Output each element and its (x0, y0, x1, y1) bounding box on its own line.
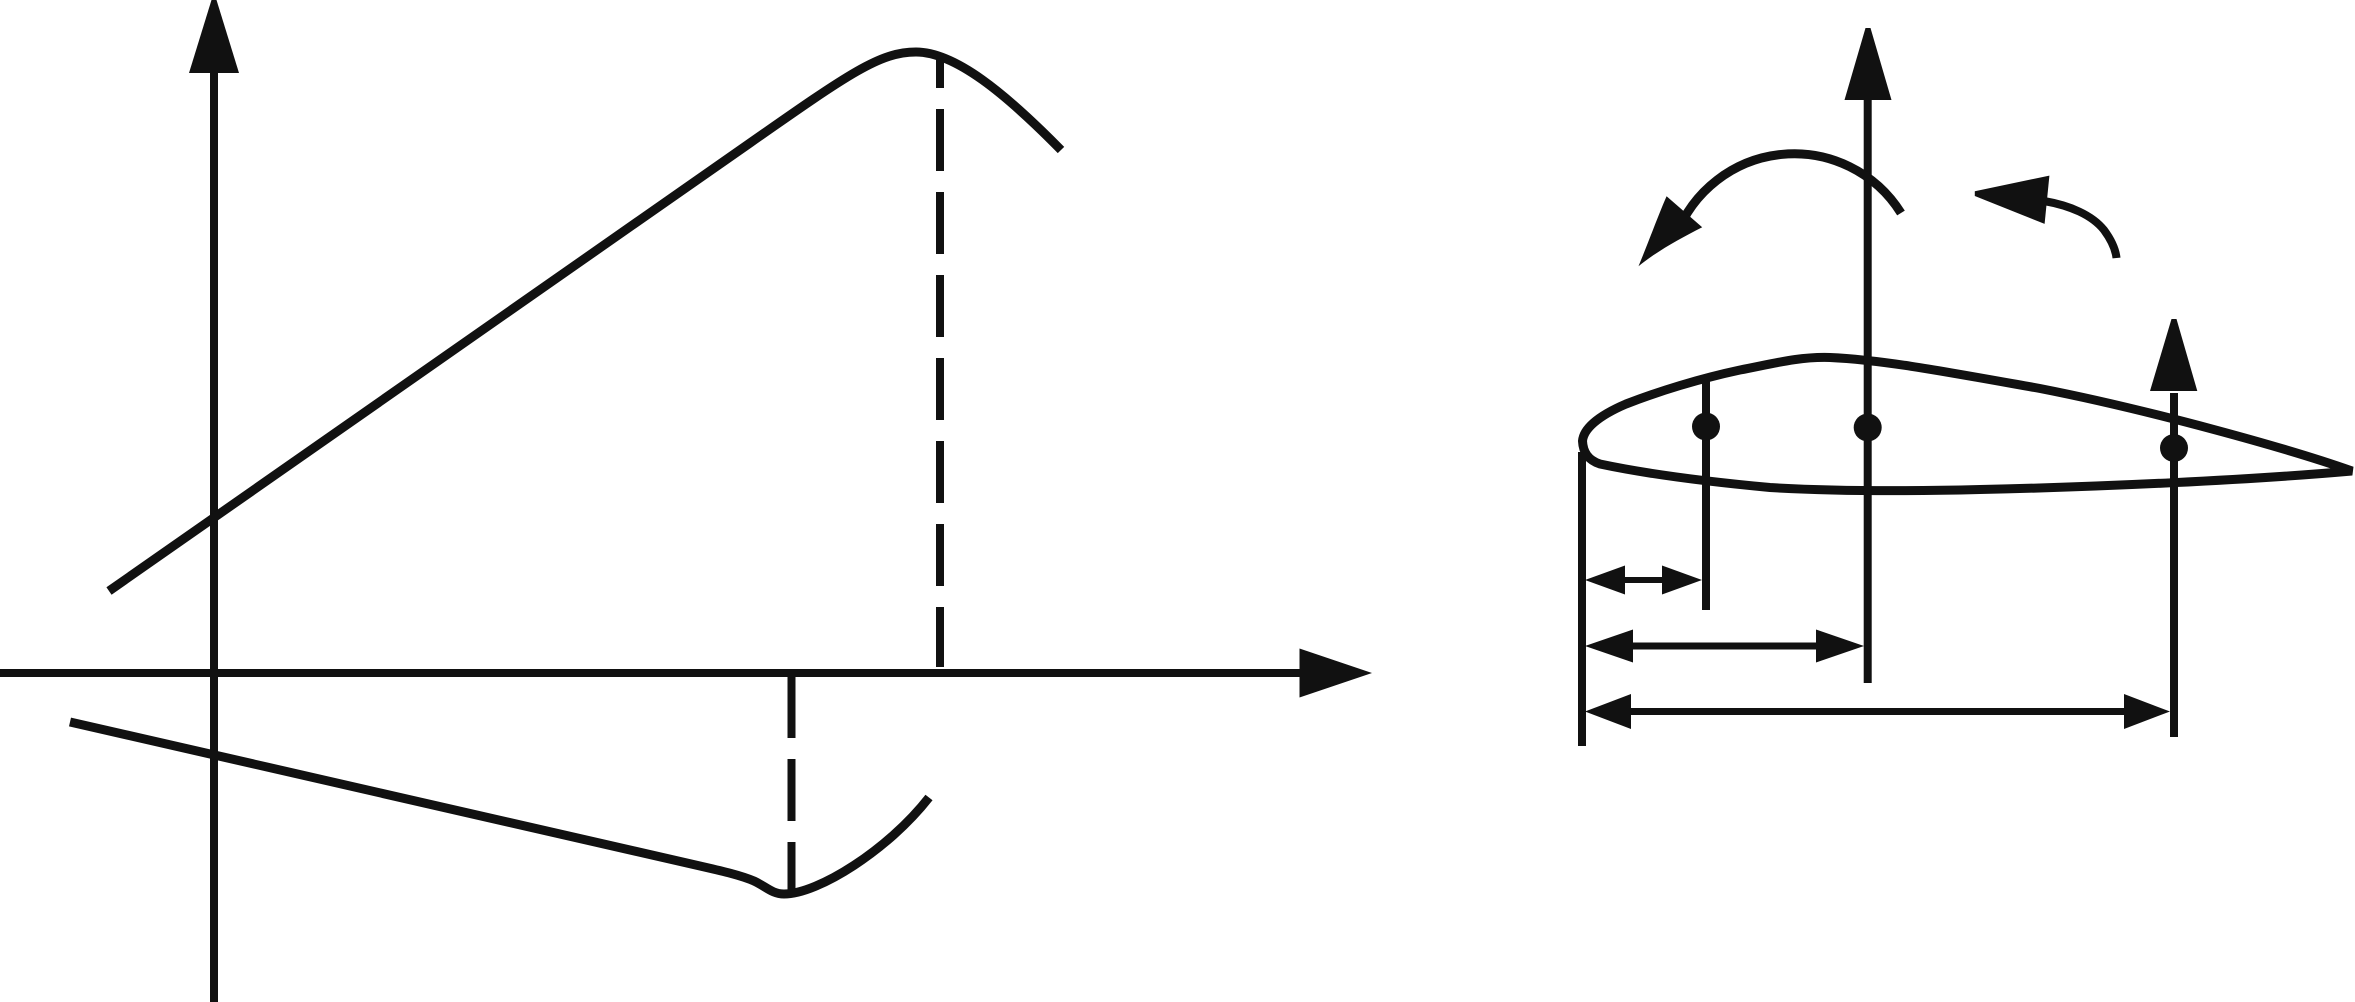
moment coefficient curve (70, 722, 929, 894)
y-axis (210, 68, 218, 1002)
large moment arc (1676, 154, 1901, 236)
leading-edge vertical line (1578, 452, 1586, 746)
dimension arrow 1 left head (1585, 566, 1625, 595)
y-axis arrowhead (189, 0, 239, 73)
airfoil outline (1583, 357, 2353, 490)
lift coefficient curve (109, 52, 1061, 591)
quarter-chord dot (1692, 413, 1720, 441)
x-axis arrowhead (1300, 649, 1373, 698)
main lift vector shaft (1864, 97, 1872, 683)
dimension arrow 3 left head (1585, 694, 1631, 729)
x-axis (0, 669, 1302, 677)
center-of-pressure dot (1854, 414, 1882, 442)
dimension arrow 3 right head (2124, 694, 2170, 729)
small moment arc tail (2044, 201, 2117, 258)
large moment arrowhead (1639, 196, 1703, 266)
small moment arrowhead (1975, 176, 2050, 224)
dimension arrow 2 left head (1585, 630, 1633, 663)
rear dot (2160, 434, 2188, 462)
dashed line at moment minimum (788, 676, 796, 891)
main lift arrowhead (1845, 28, 1892, 100)
rear lift arrowhead (2150, 319, 2197, 391)
dimension arrow 1 (LE to quarter chord) shaft (1604, 577, 1683, 583)
dimension arrow 2 (LE to center of pressure) shaft (1628, 643, 1820, 650)
dashed line at CLmax (936, 58, 944, 667)
dimension arrow 2 right head (1816, 630, 1864, 663)
dimension arrow 3 (full chord) shaft (1626, 708, 2129, 715)
dimension arrow 1 right head (1662, 566, 1702, 595)
quarter-chord vertical line (1702, 380, 1710, 610)
rear lift vector shaft (2170, 393, 2178, 737)
